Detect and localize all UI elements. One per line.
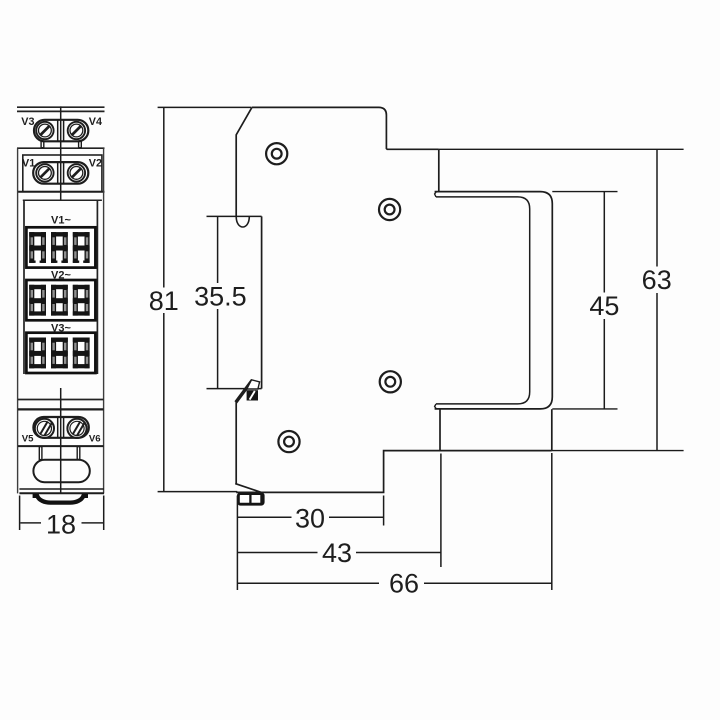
svg-text:V2~: V2~ (51, 270, 71, 282)
section line (17, 147, 105, 149)
screw V6 (67, 419, 86, 438)
top cap line 1 (17, 106, 105, 108)
body outer sides (17, 148, 19, 493)
screw V1 (36, 164, 53, 181)
body inner sides (23, 200, 25, 374)
body right lower edge (551, 409, 553, 450)
bottom latch block (238, 493, 263, 505)
center line upper (60, 106, 62, 200)
svg-text:66: 66 (389, 569, 419, 599)
window V2 digit 2 (51, 285, 68, 316)
dim 63 bottom extension (552, 450, 684, 452)
din clip block (247, 390, 258, 400)
dim 66 right extension (551, 453, 553, 590)
window V3 digit 2 (51, 338, 68, 369)
screw V5 (35, 419, 54, 438)
svg-text:V4: V4 (89, 116, 102, 128)
screw boss circle 2 (379, 199, 400, 220)
window V2 digit 3 (73, 285, 90, 316)
svg-text:30: 30 (295, 504, 325, 534)
dim 43 line (237, 552, 317, 554)
bottom line thin (19, 488, 104, 490)
bezel top end cap (435, 192, 437, 197)
bottom latch slant (235, 484, 261, 493)
window V3 digit 3 (73, 338, 90, 369)
svg-text:V1~: V1~ (51, 214, 71, 226)
terminal block V3/V4 pill (34, 120, 88, 142)
rail slot hook (236, 217, 249, 227)
dim 45 top extension (552, 191, 617, 193)
bottom line thick (19, 492, 104, 494)
dim 30 left extension (236, 496, 238, 591)
section line thick (17, 191, 105, 193)
dim 45 bottom extension (552, 408, 617, 410)
terminal block V1/V2 pill (33, 162, 88, 184)
svg-text:81: 81 (149, 286, 179, 316)
dim 43 right extension (440, 454, 442, 568)
terminal block V5/V6 pill (33, 417, 88, 438)
terminal V3/V4 feet (41, 141, 44, 147)
lower section line 3 (18, 445, 104, 447)
lower section line 2 (18, 408, 104, 410)
lower section line 1 (18, 399, 104, 401)
terminal V5/V6 divider (57, 417, 59, 438)
svg-text:43: 43 (322, 538, 352, 568)
svg-text:V3: V3 (21, 116, 34, 128)
bezel outer profile (435, 192, 553, 409)
screw V2 (68, 164, 85, 181)
top cap line 2 (17, 110, 105, 112)
dim 63 top extension (439, 148, 684, 150)
svg-text:18: 18 (46, 509, 76, 539)
dim 35.5 line (217, 216, 219, 283)
lower feet (39, 447, 42, 460)
window V2 digit 1 (29, 285, 46, 316)
svg-text:V3~: V3~ (51, 322, 71, 334)
body edge above bezel (438, 149, 440, 191)
side view: dim 81 top extension (158, 106, 252, 108)
rail slot bottom edge (207, 388, 262, 390)
screw boss circle 4 (278, 431, 299, 452)
display window V3 box (26, 333, 95, 373)
svg-text:35.5: 35.5 (194, 282, 247, 312)
body bottom face (236, 451, 552, 493)
display window V2 box (26, 280, 95, 320)
dim 81 bottom extension (158, 491, 238, 493)
screw V4 (68, 122, 85, 139)
screw boss circle 1 (266, 143, 287, 164)
din clip lever slant (236, 380, 253, 402)
dim 63 line (656, 149, 658, 266)
window V1 digit 2 (51, 232, 68, 263)
window V1 digit 3 (73, 232, 90, 263)
dim 30 line (237, 516, 291, 518)
svg-text:45: 45 (589, 291, 619, 321)
body top face (252, 107, 439, 149)
window V1 digit 1 (29, 232, 46, 263)
screw V3 (36, 122, 53, 139)
body edge below bezel (439, 409, 441, 451)
bezel bottom end cap (435, 404, 437, 409)
dim 18 line (20, 522, 41, 524)
body left edge lower (235, 402, 237, 484)
svg-text:V1: V1 (22, 158, 35, 170)
terminal section V1/V2 box (23, 155, 102, 192)
center line lower (60, 388, 62, 493)
svg-text:V2: V2 (89, 158, 102, 170)
dim 18 extension left (19, 496, 21, 531)
inner face top line (23, 199, 102, 201)
display window V1 box (26, 227, 95, 267)
window V3 digit 1 (29, 338, 46, 369)
svg-text:V6: V6 (89, 433, 101, 444)
bottom blank pill (33, 460, 89, 483)
body top-left chamfer (236, 107, 252, 216)
dim 18 extension right (103, 496, 105, 531)
dim 45 line (603, 192, 605, 293)
bottom clip arc (33, 496, 88, 503)
svg-text:63: 63 (642, 265, 672, 295)
terminal V1/V2 divider (57, 162, 59, 184)
terminal V3/V4 divider (57, 120, 59, 142)
rail slot top edge (207, 215, 262, 217)
din clip pad outline (247, 380, 260, 389)
bezel inner profile (436, 197, 530, 404)
dim 81 line (163, 107, 165, 287)
dim 66 line (237, 582, 379, 584)
screw boss circle 3 (380, 371, 401, 392)
rail slot right wall (261, 216, 263, 388)
dim 30 right extension (383, 496, 385, 526)
svg-text:V5: V5 (22, 433, 34, 444)
